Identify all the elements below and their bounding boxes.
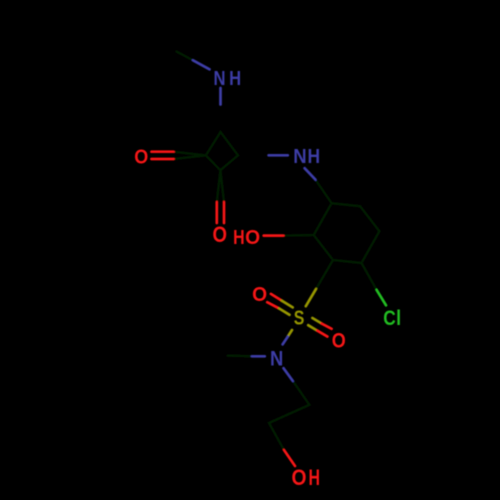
bond N3-CH2a (N half) xyxy=(284,368,293,381)
svg-text:N: N xyxy=(270,347,283,371)
svg-text:H: H xyxy=(309,465,321,490)
bond CH3a-N1 (N half) xyxy=(193,60,210,69)
double bond S=O2 lower line xyxy=(308,325,317,330)
bond S-N3 (N half) xyxy=(283,337,288,345)
wire squarate ring xyxy=(206,132,238,170)
bond Car4-Cl (Cl half) xyxy=(377,290,386,305)
bond S-N3 (S half) xyxy=(288,330,292,337)
svg-text:l: l xyxy=(396,306,401,330)
svg-text:S: S xyxy=(294,308,305,330)
wire benzene ring xyxy=(314,203,380,263)
wire CH3a-C half xyxy=(177,52,194,61)
carbon skeleton (near-black) xyxy=(174,52,380,451)
wire C halves xyxy=(315,180,331,204)
svg-text:O: O xyxy=(134,146,148,168)
double bond O=C3 (O halves) xyxy=(215,202,218,223)
bond HO-Car2 (O half) xyxy=(264,234,284,237)
double bond O=C2 (O halves) xyxy=(152,150,174,153)
bond CH2b-OH (O half) xyxy=(284,450,295,466)
svg-text:O: O xyxy=(213,222,228,247)
bond CH3b-N3 (N half) xyxy=(252,355,265,358)
double bond S=O1 upper line xyxy=(271,294,282,301)
svg-text:O: O xyxy=(245,227,260,249)
double bond S=O2 upper line xyxy=(312,318,321,323)
svg-text:N: N xyxy=(214,68,226,90)
svg-text:O: O xyxy=(252,284,267,306)
bond N2-Car1 (N half) xyxy=(305,168,316,179)
svg-text:C: C xyxy=(383,306,396,330)
bond C4-N2 (N half) xyxy=(269,154,288,157)
bond S-Car3 (S half) xyxy=(306,289,316,306)
svg-text:H: H xyxy=(233,227,245,249)
double bond S=O1 lower line xyxy=(267,302,279,308)
bond N1-C1 (N half) xyxy=(219,88,222,105)
svg-text:O: O xyxy=(332,329,346,352)
svg-text:N: N xyxy=(293,146,306,168)
svg-text:H: H xyxy=(229,68,241,90)
svg-text:H: H xyxy=(308,146,321,168)
svg-text:O: O xyxy=(292,465,307,490)
